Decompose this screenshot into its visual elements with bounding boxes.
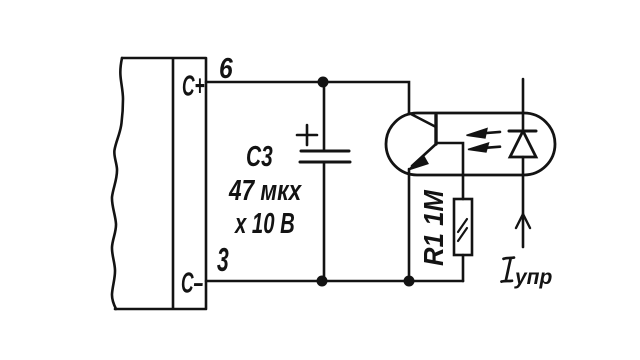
svg-text:C3: C3	[246, 141, 273, 173]
control current arrow	[516, 214, 530, 228]
label R1 1M	[418, 190, 449, 266]
svg-text:C–: C–	[181, 267, 203, 300]
pin number 3	[217, 241, 229, 278]
junction dot bottom rail / emitter	[404, 276, 415, 287]
label C3 value	[228, 141, 302, 240]
optocoupler U1 body	[386, 113, 555, 175]
device block outline	[112, 58, 206, 309]
light arrow upper	[467, 129, 501, 138]
svg-text:х 10 В: х 10 В	[233, 208, 294, 240]
svg-text:R1 1М: R1 1М	[418, 190, 449, 266]
light arrow lower	[468, 143, 500, 152]
wire base to resistor R1	[436, 143, 463, 199]
svg-text:47 мкх: 47 мкх	[228, 173, 302, 206]
svg-text:3: 3	[217, 241, 229, 278]
label I upr	[502, 258, 553, 289]
svg-text:упр: упр	[514, 266, 553, 289]
resistor R1	[454, 199, 472, 281]
pin label C-	[181, 267, 203, 300]
svg-text:6: 6	[219, 52, 234, 84]
capacitor C3	[297, 82, 350, 281]
wire bottom rail	[206, 280, 463, 283]
wire top rail	[206, 82, 409, 114]
svg-text:C+: C+	[182, 70, 205, 103]
phototransistor	[409, 113, 437, 281]
pin label C+	[182, 70, 205, 103]
junction dot top rail / C3	[318, 77, 329, 88]
pin number 6	[219, 52, 234, 84]
junction dot bottom rail / C3	[317, 276, 328, 287]
LED	[509, 79, 536, 247]
